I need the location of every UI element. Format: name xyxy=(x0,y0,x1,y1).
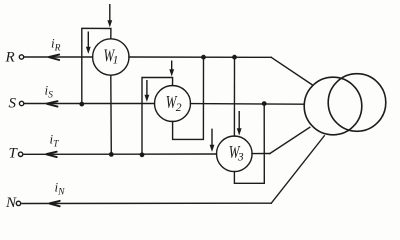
svg-text:R: R xyxy=(5,50,15,66)
svg-text:1: 1 xyxy=(113,55,119,67)
transformer left winding xyxy=(304,77,362,135)
wire: W2 voltage loop from node on T xyxy=(142,78,173,155)
svg-text:N: N xyxy=(5,195,17,211)
transformer right winding xyxy=(328,74,386,132)
terminal R xyxy=(19,55,23,59)
terminal T xyxy=(18,152,22,156)
wattmeter W1 circle xyxy=(93,39,129,75)
wire: line N horizontal xyxy=(22,202,271,204)
wire: W2 bottom lead to node on R xyxy=(173,57,204,139)
wire: line S horizontal xyxy=(24,103,304,106)
wattmeter W2 circle xyxy=(155,86,191,122)
current-coil arrow at W1 xyxy=(87,32,89,48)
svg-text:2: 2 xyxy=(176,102,182,114)
wattmeter W3 circle xyxy=(217,136,253,172)
wire: line T diagonal to transformer xyxy=(270,127,310,153)
terminal N xyxy=(16,201,20,205)
node on R (W3 lead junction) xyxy=(232,55,237,60)
current-coil arrow at W3 xyxy=(211,129,213,146)
wire: line R diagonal to transformer xyxy=(271,57,312,85)
current-coil arrow at W2 xyxy=(146,80,148,96)
voltage arrow above W3 xyxy=(238,111,240,129)
current arrow iR on line R xyxy=(49,55,60,60)
wire: line T horizontal xyxy=(24,153,270,156)
node on S (W1 loop junction) xyxy=(79,102,84,107)
wire: line R horizontal xyxy=(24,56,271,58)
terminal S xyxy=(19,101,23,105)
svg-text:S: S xyxy=(9,96,17,112)
node on S (W3 lead junction) xyxy=(262,101,267,106)
current arrow iN on line N xyxy=(49,201,60,206)
node on T (W2 loop junction) xyxy=(140,152,145,157)
wire: line N diagonal to transformer xyxy=(271,136,324,203)
wire: W3 bottom lead to node on S xyxy=(234,104,264,184)
wire: W1 bottom lead to node on T xyxy=(110,75,113,154)
voltage arrow above W1 xyxy=(109,4,111,21)
voltage arrow above W2 xyxy=(171,61,173,71)
node on R (W2 lead junction) xyxy=(201,55,206,60)
node on T (W1 lead junction) xyxy=(109,152,114,157)
wire: W3 top lead from node on R xyxy=(233,57,235,136)
current arrow iT on line T xyxy=(46,152,57,157)
svg-text:3: 3 xyxy=(237,151,244,163)
current arrow iS on line S xyxy=(47,101,58,106)
wire: W1 voltage loop from node on S xyxy=(82,28,111,104)
